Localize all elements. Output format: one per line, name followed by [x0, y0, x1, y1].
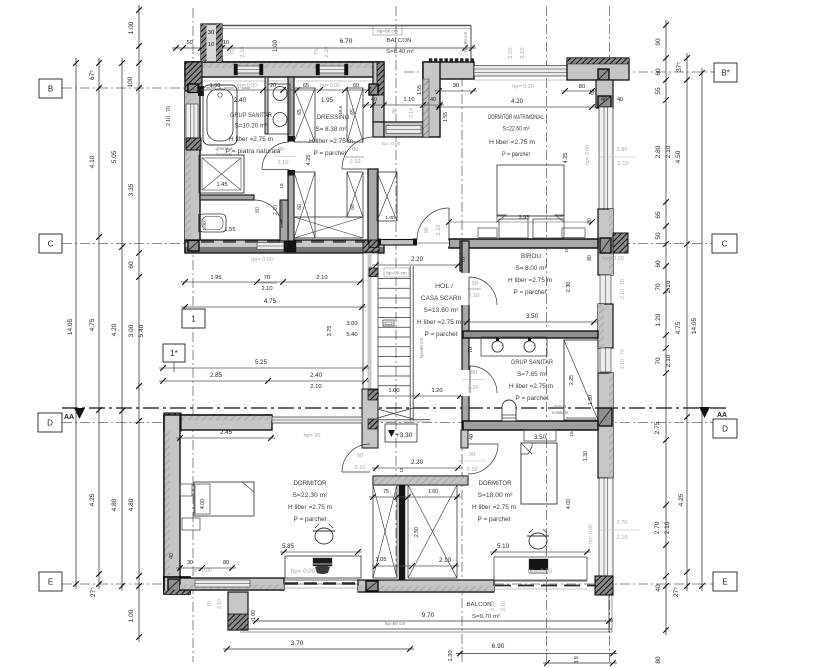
svg-text:2.85: 2.85	[210, 372, 223, 379]
master bottom wall (thick part)	[449, 239, 598, 248]
grid marker D right with AA	[699, 407, 710, 418]
svg-text:70: 70	[620, 349, 626, 355]
svg-text:hp=90 cm: hp=90 cm	[463, 32, 468, 52]
window band top of lower block	[272, 417, 362, 423]
svg-text:2.10: 2.10	[166, 116, 172, 126]
svg-text:40: 40	[430, 97, 436, 103]
column top-left corner	[185, 62, 202, 91]
stair right rail	[409, 266, 411, 421]
svg-text:14.05: 14.05	[67, 318, 74, 335]
svg-text:4.20: 4.20	[511, 98, 524, 105]
svg-text:2.10: 2.10	[310, 384, 321, 390]
left outer wall lower block	[164, 415, 180, 592]
grid marker B* right	[714, 63, 737, 82]
svg-text:hp= 0.00: hp= 0.00	[192, 568, 212, 574]
svg-text:2.10: 2.10	[665, 354, 672, 367]
balcony stub bottom	[228, 592, 248, 630]
svg-text:65: 65	[655, 211, 662, 219]
svg-text:hp= 0.00: hp= 0.00	[251, 257, 273, 263]
master bottom wall (thin part)	[378, 240, 416, 246]
svg-text:4.80: 4.80	[111, 498, 118, 511]
svg-text:3.95: 3.95	[518, 215, 529, 221]
wall stub south of master door	[460, 241, 467, 271]
svg-text:2.10: 2.10	[620, 289, 626, 299]
svg-text:75: 75	[383, 489, 389, 495]
svg-text:30: 30	[187, 560, 193, 566]
svg-text:S= 8.38 m²: S= 8.38 m²	[316, 127, 347, 133]
svg-text:1.30: 1.30	[588, 395, 594, 405]
level marker +3.30	[385, 424, 417, 442]
hol dims	[372, 264, 462, 266]
svg-text:80: 80	[579, 84, 585, 90]
svg-text:80: 80	[352, 147, 358, 153]
hp=90 box on balcony	[373, 26, 402, 35]
svg-text:10: 10	[208, 42, 214, 48]
balcony slab bottom	[240, 628, 612, 630]
window W1 in top wall	[237, 66, 260, 73]
svg-text:2.10: 2.10	[469, 293, 480, 299]
outer top wall of upper-left block	[185, 62, 384, 77]
right dimension chain 1	[665, 20, 667, 635]
svg-text:2.40: 2.40	[310, 372, 323, 379]
svg-text:4.75: 4.75	[264, 298, 277, 305]
glass front desk area	[494, 580, 587, 582]
master bed	[497, 165, 564, 216]
svg-text:20: 20	[270, 83, 276, 89]
svg-text:S=18.00 m²: S=18.00 m²	[478, 493, 513, 499]
grid axis line C (y=243.5)	[62, 243, 736, 245]
svg-text:3.35: 3.35	[128, 183, 135, 196]
svg-text:90: 90	[472, 281, 478, 287]
gs2 toilet	[502, 400, 516, 421]
dressing wardrobe lower-right	[347, 172, 363, 217]
door to dormitor2	[468, 444, 498, 474]
svg-text:10: 10	[223, 40, 229, 46]
svg-text:2.10: 2.10	[468, 385, 479, 391]
section line AA (y=409)	[62, 407, 730, 409]
svg-text:70: 70	[314, 49, 320, 55]
svg-text:1.20: 1.20	[431, 388, 442, 394]
hp texts stairs	[384, 268, 409, 277]
window W2 in top wall	[319, 66, 345, 73]
right outer wall segment 3	[598, 304, 613, 348]
svg-text:3.70: 3.70	[291, 640, 304, 647]
left dimension chain 3	[121, 58, 123, 591]
svg-text:1.20: 1.20	[655, 313, 662, 326]
svg-text:hp=90 cm: hp=90 cm	[385, 621, 405, 626]
svg-text:DORMITOR MATRIMONIAL: DORMITOR MATRIMONIAL	[488, 114, 544, 121]
gs1 top dims	[196, 89, 372, 91]
dim 2.85/2.40 line	[159, 380, 369, 382]
grid marker E left	[39, 572, 62, 591]
svg-text:3.9: 3.9	[574, 656, 580, 664]
WC top wall	[200, 195, 254, 200]
dim 5.25 line	[159, 367, 369, 369]
svg-text:1.00: 1.00	[251, 610, 257, 620]
svg-text:2.10: 2.10	[273, 205, 279, 216]
balcony top slab outline	[222, 25, 471, 27]
grid axis line B* (y=72)	[404, 71, 736, 73]
WC door arc	[254, 200, 282, 228]
svg-text:hp=90 cm: hp=90 cm	[419, 338, 424, 358]
wall step with exterior door (north of hol)	[373, 122, 384, 137]
svg-text:15: 15	[279, 183, 285, 189]
svg-text:H liber =2.75 m: H liber =2.75 m	[509, 384, 553, 390]
bottom dimension line 3.70	[223, 648, 414, 650]
svg-text:1.55: 1.55	[224, 227, 235, 233]
svg-text:80: 80	[471, 370, 477, 376]
thin wall left of sink alcove	[265, 77, 268, 134]
svg-text:37⁵: 37⁵	[676, 62, 683, 72]
svg-text:H liber =2.75 m: H liber =2.75 m	[508, 278, 552, 284]
grid axis line x=609.5	[609, 6, 611, 662]
svg-text:GRUP SANITAR: GRUP SANITAR	[230, 113, 273, 119]
shower enclosure	[199, 155, 244, 193]
svg-text:hp= 0.00: hp= 0.00	[382, 141, 401, 147]
grid marker E right	[713, 572, 737, 591]
axis marker 1	[182, 309, 205, 328]
svg-text:2.20: 2.20	[411, 459, 424, 466]
dormitor1 dims	[176, 437, 275, 439]
svg-text:GRUP SANITAR: GRUP SANITAR	[511, 360, 554, 366]
svg-text:2.10: 2.10	[501, 601, 507, 611]
wall between GS1 and dressing	[288, 77, 294, 241]
svg-text:C: C	[722, 240, 728, 249]
svg-text:90: 90	[424, 227, 430, 233]
svg-text:4.20: 4.20	[111, 323, 118, 336]
svg-text:4.25: 4.25	[563, 153, 569, 164]
svg-text:4.75: 4.75	[675, 321, 682, 334]
svg-text:P = parchet: P = parchet	[294, 517, 327, 523]
svg-text:S=8.40 m²: S=8.40 m²	[386, 49, 414, 55]
svg-text:2.25: 2.25	[569, 375, 575, 385]
svg-text:.50: .50	[185, 40, 193, 46]
door opening in that wall	[386, 126, 421, 134]
svg-text:100: 100	[127, 76, 134, 87]
black block at dressing wall junction	[284, 240, 296, 252]
svg-text:70: 70	[461, 257, 467, 263]
svg-text:1.30: 1.30	[448, 650, 454, 661]
wall stub top of stair	[369, 240, 378, 248]
svg-text:H liber =2.75 m: H liber =2.75 m	[472, 505, 516, 511]
svg-text:90: 90	[453, 83, 459, 89]
svg-text:H liber =2.75 m: H liber =2.75 m	[417, 320, 461, 326]
svg-text:60: 60	[353, 83, 359, 89]
svg-text:65: 65	[303, 83, 309, 89]
svg-text:AA: AA	[717, 412, 727, 419]
wall between birou and gs2	[463, 331, 598, 338]
top wall lower-left block	[164, 415, 272, 430]
svg-text:P = parchet: P = parchet	[502, 151, 530, 158]
svg-text:90: 90	[357, 453, 363, 459]
svg-text:40: 40	[169, 553, 175, 559]
svg-text:5.40: 5.40	[346, 332, 357, 338]
svg-text:40: 40	[655, 584, 662, 592]
svg-text:40: 40	[469, 434, 475, 440]
right wall window (birou)	[600, 275, 611, 304]
svg-text:S=22.30 m²: S=22.30 m²	[293, 493, 328, 499]
divider wall between bedrooms	[399, 485, 405, 580]
right outer wall segment 4	[598, 373, 613, 478]
bottom wall of gs2	[463, 421, 598, 430]
corner column	[164, 413, 181, 431]
sink counter with two basins	[268, 84, 290, 134]
grid axis line B (horizontal y=88)	[62, 87, 250, 89]
svg-text:2.10: 2.10	[217, 599, 223, 609]
right wall window (gs2)	[600, 348, 611, 372]
svg-text:D: D	[722, 425, 728, 434]
svg-text:1.00: 1.00	[388, 388, 399, 394]
svg-text:instalatii: instalatii	[552, 410, 568, 415]
svg-text:1: 1	[191, 315, 196, 324]
svg-text:2.80: 2.80	[617, 147, 628, 153]
door to dormitor1	[342, 444, 370, 472]
column bottom-left of upper block	[185, 240, 202, 252]
grid marker B left	[39, 79, 62, 98]
svg-text:S= 8.00 m²: S= 8.00 m²	[516, 266, 547, 272]
svg-text:E: E	[722, 578, 727, 587]
svg-text:5.40: 5.40	[138, 324, 145, 337]
svg-text:hp=90 cm: hp=90 cm	[377, 29, 397, 34]
column left wall middle	[186, 138, 201, 150]
wardrobe dorm1	[373, 485, 397, 578]
west wall stub of dormitor2	[461, 430, 468, 448]
svg-text:15: 15	[569, 431, 575, 437]
gs2 bottom dim box 3.50	[524, 430, 556, 441]
west wall of birou/gs2	[462, 241, 469, 430]
grid marker C right	[712, 234, 737, 253]
svg-text:1.55: 1.55	[443, 112, 449, 122]
svg-text:1.05: 1.05	[375, 557, 386, 563]
svg-text:2.10: 2.10	[409, 108, 415, 118]
gs2 door arc	[470, 366, 497, 393]
balcony dim 9.70	[252, 620, 613, 622]
svg-text:4.10: 4.10	[89, 155, 96, 168]
left dimension chain 2	[98, 58, 100, 589]
svg-text:DORMITOR: DORMITOR	[479, 481, 513, 487]
svg-text:80: 80	[587, 255, 593, 261]
dressing wardrobe upper-left	[294, 88, 315, 142]
svg-text:40: 40	[371, 97, 377, 103]
svg-text:80: 80	[223, 560, 229, 566]
svg-text:65: 65	[297, 109, 303, 115]
black block at SE corner of upper block	[363, 240, 379, 252]
svg-text:2.10: 2.10	[439, 557, 452, 564]
birou door opening	[461, 273, 470, 305]
svg-text:70: 70	[620, 279, 626, 285]
grid axis line 1 (x=193)	[192, 8, 194, 662]
svg-text:B: B	[48, 85, 53, 94]
master top window band	[474, 66, 567, 77]
svg-text:BALCON: BALCON	[467, 602, 492, 608]
right wall window (master, 2.80)	[599, 107, 613, 209]
master door arc	[417, 208, 449, 240]
svg-text:60: 60	[297, 204, 303, 210]
column protrusion at C	[613, 233, 628, 253]
svg-text:1.00: 1.00	[385, 215, 395, 221]
bottom wall of upper-left block	[185, 240, 384, 247]
svg-text:1.00: 1.00	[202, 221, 208, 231]
black column on dressing east wall	[369, 84, 378, 95]
svg-text:1.10: 1.10	[403, 97, 414, 103]
svg-text:H liber =2.75 m: H liber =2.75 m	[489, 139, 535, 146]
svg-text:1.00: 1.00	[273, 40, 279, 52]
dormitor2 desk	[494, 557, 587, 580]
svg-text:4.75: 4.75	[89, 318, 96, 331]
svg-text:3.00: 3.00	[490, 601, 496, 611]
grid marker C left	[39, 234, 62, 253]
svg-text:80: 80	[655, 656, 662, 664]
bottom dimension line 6.90	[456, 653, 617, 655]
svg-text:27⁵: 27⁵	[673, 587, 680, 597]
bottom wall lower block	[180, 578, 284, 590]
svg-text:2.20: 2.20	[411, 256, 424, 263]
svg-text:2.10: 2.10	[278, 160, 289, 166]
dressing wardrobe upper-right	[347, 88, 363, 142]
svg-text:E: E	[48, 578, 53, 587]
svg-text:DORMITOR: DORMITOR	[294, 481, 328, 487]
svg-text:CASA SCARII: CASA SCARII	[421, 296, 461, 302]
grid axis line E (y=584)	[62, 583, 736, 585]
svg-text:BIROU: BIROU	[521, 254, 541, 260]
svg-text:2.50: 2.50	[414, 527, 420, 537]
svg-text:5.85: 5.85	[282, 543, 295, 550]
svg-text:2.10: 2.10	[261, 286, 272, 292]
svg-text:40: 40	[601, 97, 607, 103]
svg-text:70: 70	[655, 283, 662, 291]
svg-text:27⁵: 27⁵	[90, 587, 97, 597]
svg-text:S=9.70 m²: S=9.70 m²	[472, 614, 500, 620]
svg-text:65: 65	[590, 89, 596, 95]
master wardrobe	[377, 172, 397, 221]
svg-text:1.55: 1.55	[417, 85, 423, 95]
svg-text:90: 90	[655, 38, 662, 46]
svg-text:2.10: 2.10	[240, 47, 246, 58]
svg-text:2.40: 2.40	[234, 97, 247, 104]
master top-right corner wall	[567, 58, 629, 80]
right outer wall segment 2	[598, 209, 613, 275]
svg-text:2.80: 2.80	[655, 145, 662, 158]
left dimension chain 14.05	[75, 58, 77, 589]
svg-text:70: 70	[468, 347, 474, 353]
svg-text:hp= 0.00: hp= 0.00	[528, 568, 553, 575]
svg-text:60: 60	[655, 68, 662, 76]
right wall of upper-left block (dressing east wall)	[373, 62, 384, 122]
svg-text:hp= 0.00: hp= 0.00	[320, 83, 340, 89]
pillows	[499, 219, 528, 238]
svg-text:60: 60	[350, 204, 356, 210]
wall segment under wardrobes	[358, 580, 494, 592]
bottom-left corner column	[164, 577, 190, 594]
left wall of stairwell	[362, 389, 378, 448]
svg-text:2.50: 2.50	[508, 47, 514, 58]
dormitor2 dims	[490, 551, 591, 553]
svg-text:2.45: 2.45	[220, 429, 233, 436]
svg-text:3.50: 3.50	[526, 313, 539, 320]
svg-text:hp= 0.00: hp= 0.00	[602, 256, 624, 262]
svg-text:3.50: 3.50	[534, 434, 547, 441]
axis marker 1*	[163, 344, 185, 362]
svg-text:9.70: 9.70	[422, 612, 435, 619]
window in bottom wall	[195, 580, 250, 587]
grid axis line x=462	[461, 58, 463, 662]
master right wall upper piece	[596, 80, 613, 108]
svg-text:1.95: 1.95	[321, 97, 334, 104]
grid marker D left	[38, 413, 62, 432]
balcony sliding door	[284, 579, 358, 581]
svg-text:HOL /: HOL /	[435, 284, 453, 290]
svg-text:2.10: 2.10	[520, 47, 526, 58]
svg-text:2.10: 2.10	[618, 161, 629, 167]
lower-right corner column	[595, 576, 613, 595]
svg-text:4.00: 4.00	[200, 499, 206, 509]
gs2 shower	[564, 340, 598, 420]
svg-text:1.90: 1.90	[210, 83, 221, 89]
grid axis line D (y=422.5)	[62, 422, 736, 424]
gs2 sinks	[481, 337, 547, 356]
svg-text:hp=90 cm: hp=90 cm	[386, 271, 406, 276]
svg-text:70: 70	[264, 275, 270, 281]
svg-text:70: 70	[230, 49, 236, 55]
opening in bottom wall	[257, 243, 284, 250]
svg-text:65: 65	[350, 109, 356, 115]
dressing wardrobe bottom wide	[294, 217, 363, 238]
black lintel left wall	[188, 84, 198, 93]
svg-text:60: 60	[655, 260, 662, 268]
svg-text:67⁵: 67⁵	[89, 70, 96, 80]
birou door arc	[469, 277, 497, 305]
stairwell west wall strip	[363, 253, 378, 389]
svg-text:80: 80	[587, 218, 593, 224]
window in left wall	[186, 104, 198, 148]
master top dims	[435, 90, 477, 92]
dim 4.75 line	[181, 306, 366, 308]
door opening GS1 to dressing	[287, 142, 295, 171]
svg-text:80: 80	[255, 207, 261, 213]
svg-text:P = parchet: P = parchet	[314, 151, 347, 157]
svg-text:4.00: 4.00	[566, 499, 572, 509]
svg-text:P = piatra naturala: P = piatra naturala	[226, 149, 282, 155]
right dimension chain 2	[686, 53, 688, 591]
svg-text:2.10: 2.10	[350, 159, 361, 165]
svg-text:hp= 0.00: hp= 0.00	[512, 84, 534, 90]
svg-text:4.25: 4.25	[306, 155, 312, 166]
svg-text:B*: B*	[721, 69, 729, 78]
svg-text:C: C	[48, 240, 54, 249]
svg-text:2.10: 2.10	[620, 359, 626, 369]
svg-text:1.00: 1.00	[128, 21, 135, 34]
svg-text:5.25: 5.25	[255, 359, 268, 366]
svg-text:4.50: 4.50	[675, 150, 682, 163]
chimney stack	[201, 24, 222, 62]
svg-text:hp= 20: hp= 20	[304, 433, 321, 439]
svg-text:P = parchet: P = parchet	[514, 290, 547, 296]
svg-text:hp= 0.00: hp= 0.00	[585, 145, 591, 165]
svg-text:DRESSING: DRESSING	[317, 115, 350, 121]
svg-text:2.10: 2.10	[355, 465, 366, 471]
master top-left L wall	[423, 62, 474, 79]
svg-text:70: 70	[207, 601, 213, 607]
svg-text:2.10: 2.10	[664, 521, 671, 534]
svg-text:2.70: 2.70	[617, 520, 628, 526]
svg-text:H liber =2.75 m: H liber =2.75 m	[288, 505, 332, 511]
svg-text:hp= 0.00: hp= 0.00	[237, 83, 257, 89]
dressing wardrobe lower-left	[294, 172, 315, 238]
stair treads	[374, 278, 410, 280]
svg-text:40: 40	[617, 97, 623, 103]
nightstands	[180, 484, 192, 496]
svg-text:60: 60	[128, 261, 135, 269]
